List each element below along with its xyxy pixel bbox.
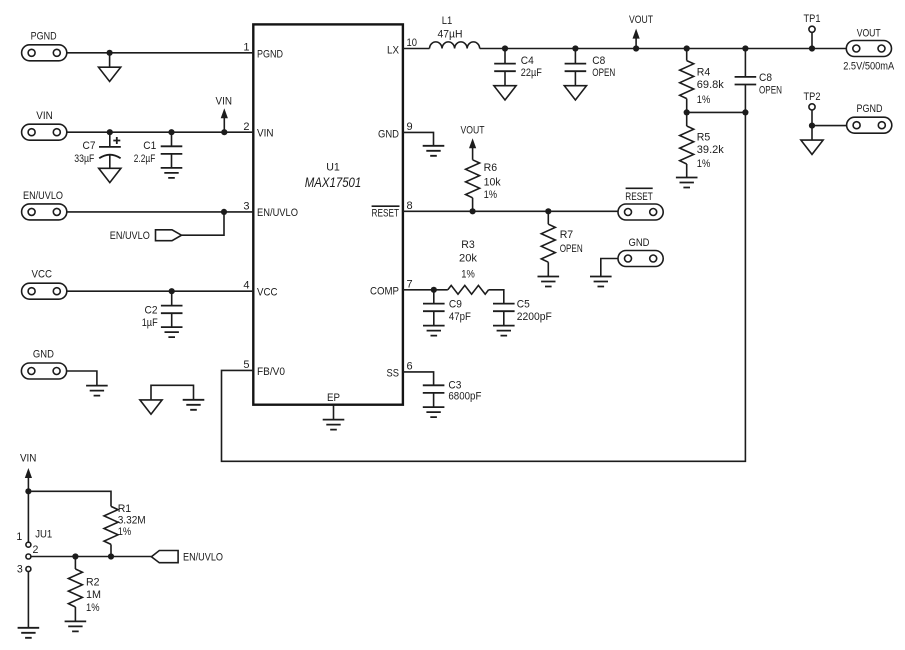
svg-text:R5: R5 [697, 131, 711, 143]
wire VIN junction to R1 [28, 491, 111, 506]
wire VIN connector to pin 2 [67, 131, 254, 133]
connector J GND (right) [618, 237, 663, 267]
ground bridge triangle-earth (floating) [151, 385, 194, 400]
node junction VIN/R1 [25, 488, 31, 494]
svg-text:6800pF: 6800pF [448, 391, 481, 403]
wire R3 to C5 [489, 290, 504, 304]
wire pin 9 GND to ground [403, 132, 434, 145]
svg-text:L1: L1 [442, 15, 453, 27]
node junction C2 [169, 288, 175, 294]
test point TP1 [804, 13, 821, 48]
wire JU1 pin2 row to EN/UVLO tag [31, 556, 151, 558]
svg-text:GND: GND [629, 237, 650, 249]
wire VCC connector to pin 4 [67, 290, 254, 292]
svg-text:33µF: 33µF [74, 153, 94, 165]
capacitor C4 22uF [494, 49, 542, 86]
ground earth (R5) [676, 178, 698, 188]
ground earth (C5) [493, 326, 515, 336]
svg-text:8: 8 [407, 200, 413, 212]
jumper JU1 pin 2 [26, 544, 39, 559]
node junction C8 bottom [742, 109, 748, 115]
wire PGND connector to pin 1 [67, 52, 254, 54]
pin 5 label FB/V0 [243, 359, 285, 378]
svg-text:EP: EP [327, 392, 340, 404]
svg-text:5: 5 [243, 359, 249, 371]
wire feedback loop pin5 FB/V0 [222, 112, 746, 461]
wire pin 10 LX to inductor [403, 48, 430, 50]
wire GND connector (right) to ground [601, 259, 618, 277]
jumper JU1 pin 1 [16, 531, 31, 547]
pin EP label [327, 392, 340, 404]
capacitor C2 1uF [142, 291, 183, 329]
ground earth (C9) [423, 326, 445, 336]
svg-text:EN/UVLO: EN/UVLO [183, 552, 223, 564]
op-amp U1 MAX17501 IC body [253, 24, 403, 404]
svg-text:VIN: VIN [216, 95, 233, 107]
svg-text:R3: R3 [461, 239, 475, 251]
wire stub down to ground triangle [109, 53, 111, 67]
node junction R7 top [545, 208, 551, 214]
node junction EN/UVLO tag [221, 209, 227, 215]
connector J VCC (left) [22, 268, 67, 299]
wire GND connector to ground [67, 371, 97, 386]
svg-text:RESET: RESET [625, 191, 653, 203]
capacitor C3 6800pF [423, 379, 482, 407]
pin 9 label GND [378, 121, 413, 140]
node junction C8 (first) [572, 45, 578, 51]
svg-text:COMP: COMP [370, 286, 399, 298]
ground earth (C2) [161, 327, 183, 337]
ground earth (GND connector) [86, 386, 108, 396]
connector J PGND (top-left) [22, 31, 67, 61]
svg-text:9: 9 [407, 121, 413, 133]
svg-text:FB/V0: FB/V0 [257, 366, 285, 378]
net arrow VIN (up) [216, 95, 233, 132]
node junction R2 top [72, 553, 78, 559]
svg-text:7: 7 [407, 278, 413, 290]
node junction R6 bottom [470, 208, 476, 214]
node junction C8 top rail [742, 45, 748, 51]
svg-text:VOUT: VOUT [629, 14, 653, 26]
svg-text:U1: U1 [326, 162, 340, 174]
connector J VIN (left) [22, 110, 67, 140]
svg-text:1%: 1% [86, 602, 100, 614]
connector J PGND (right) [847, 103, 892, 133]
svg-text:1%: 1% [484, 189, 498, 201]
svg-text:47pF: 47pF [449, 311, 471, 323]
svg-text:GND: GND [33, 349, 54, 361]
ground earth (GND right) [590, 277, 612, 287]
pin 7 label COMP [370, 278, 413, 297]
node junction PGND/ground [107, 50, 113, 56]
net arrow VOUT (middle, above R6) [461, 125, 485, 160]
svg-text:R4: R4 [697, 67, 711, 79]
svg-text:69.8k: 69.8k [697, 79, 725, 91]
wire VOUT rail [480, 48, 847, 50]
svg-text:OPEN: OPEN [592, 67, 615, 79]
svg-text:PGND: PGND [857, 103, 883, 115]
svg-text:C8: C8 [592, 55, 605, 67]
capacitor C9 47pF [423, 290, 471, 326]
svg-text:22µF: 22µF [521, 67, 542, 79]
svg-text:OPEN: OPEN [560, 243, 583, 255]
node junction TP1 [809, 45, 815, 51]
svg-text:20k: 20k [459, 252, 478, 264]
inductor L1 47uH [430, 15, 480, 48]
svg-text:SS: SS [387, 368, 400, 380]
capacitor C8 OPEN (first) [565, 49, 616, 86]
pin 4 label VCC [243, 280, 277, 299]
ground earth (pin 9) [423, 146, 445, 156]
svg-text:47µH: 47µH [438, 29, 463, 41]
connector J VOUT (right) [843, 28, 895, 73]
node junction C4 [502, 45, 508, 51]
resistor R2 1M 1% [68, 557, 101, 622]
svg-text:VIN: VIN [257, 128, 274, 140]
svg-text:OPEN: OPEN [759, 85, 782, 97]
wire pin 6 SS [403, 372, 434, 385]
svg-text:1µF: 1µF [142, 317, 158, 329]
svg-text:1: 1 [243, 42, 249, 54]
svg-text:1%: 1% [461, 269, 475, 281]
capacitor C8 OPEN (second, across R4) [735, 49, 782, 113]
svg-text:LX: LX [387, 45, 399, 57]
wire R4/R5 junction to C8 branch [687, 111, 746, 113]
pin 10 label LX [387, 37, 417, 56]
node junction VOUT arrow [633, 45, 639, 51]
ground earth (R7) [538, 277, 560, 287]
wire tag riser [182, 212, 225, 235]
svg-text:EN/UVLO: EN/UVLO [23, 190, 63, 202]
node junction R4 top [684, 45, 690, 51]
ground EP (earth) [323, 420, 345, 430]
svg-text:EN/UVLO: EN/UVLO [110, 230, 150, 242]
pin 6 label SS [387, 361, 413, 380]
svg-text:C8: C8 [759, 72, 772, 84]
ground triangle (TP2) [801, 140, 823, 154]
svg-text:PGND: PGND [257, 49, 283, 61]
svg-text:R6: R6 [484, 162, 498, 174]
svg-text:RESET: RESET [372, 207, 400, 219]
resistor R4 69.8k 1% [680, 49, 725, 113]
node junction R1 bottom [108, 553, 114, 559]
capacitor C7 33uF polarized [74, 132, 121, 168]
svg-text:MAX17501: MAX17501 [305, 175, 362, 190]
svg-text:10: 10 [407, 37, 418, 49]
svg-text:C3: C3 [448, 379, 461, 391]
svg-text:VCC: VCC [32, 268, 53, 280]
wire EP to ground [333, 405, 335, 420]
svg-text:1%: 1% [697, 94, 711, 106]
svg-text:PGND: PGND [31, 31, 57, 43]
node junction C1 [168, 129, 174, 135]
svg-text:TP1: TP1 [804, 13, 821, 25]
svg-text:TP2: TP2 [804, 91, 821, 103]
svg-text:10k: 10k [484, 176, 502, 188]
resistor R3 20k 1% (horizontal) [448, 239, 489, 294]
svg-text:VOUT: VOUT [461, 125, 485, 137]
svg-text:EN/UVLO: EN/UVLO [257, 207, 298, 219]
svg-text:C1: C1 [143, 140, 156, 152]
test point TP2 [804, 91, 821, 126]
wire pin 8 RESET row [403, 210, 619, 212]
svg-text:VIN: VIN [20, 452, 37, 464]
ground triangle (bridge left) [140, 400, 162, 414]
ground earth (C3) [423, 407, 445, 417]
wire EN/UVLO connector to pin 3 [67, 211, 254, 213]
resistor R6 10k 1% [466, 160, 502, 212]
svg-text:2.5V/500mA: 2.5V/500mA [843, 61, 895, 73]
resistor R7 OPEN [541, 211, 582, 276]
svg-text:2: 2 [33, 544, 39, 556]
svg-text:C5: C5 [517, 299, 530, 311]
connector J GND (left) [21, 349, 66, 380]
capacitor C5 2200pF [493, 299, 552, 326]
svg-text:2: 2 [243, 121, 249, 133]
ground triangle (PGND row) [99, 67, 121, 81]
svg-text:R2: R2 [86, 576, 100, 588]
ground triangle (C8 first) [564, 86, 586, 100]
pin 8 label RESET (overline) [372, 200, 413, 220]
wire pin 7 COMP [403, 289, 448, 291]
svg-text:1M: 1M [86, 589, 101, 601]
svg-text:3: 3 [243, 201, 249, 213]
net arrow VOUT (top) [629, 14, 653, 49]
ground triangle (C4) [494, 86, 516, 100]
svg-text:2.2µF: 2.2µF [134, 153, 156, 165]
svg-text:2200pF: 2200pF [517, 311, 553, 323]
svg-text:GND: GND [378, 128, 399, 140]
svg-text:1%: 1% [697, 158, 711, 170]
ground earth (R2) [65, 621, 87, 631]
resistor R1 3.32M 1% [104, 503, 146, 557]
node junction C9 [431, 287, 437, 293]
capacitor C1 2.2uF [134, 132, 183, 168]
connector J EN/UVLO (left) [22, 190, 67, 220]
net tag EN/UVLO (points left) [151, 551, 223, 564]
svg-text:R1: R1 [118, 503, 132, 515]
svg-text:VOUT: VOUT [857, 28, 881, 40]
ground earth (C1) [161, 168, 183, 178]
svg-text:3.32M: 3.32M [118, 514, 146, 526]
svg-text:6: 6 [407, 361, 413, 373]
node junction R4/R5 [684, 109, 690, 115]
svg-text:VCC: VCC [257, 287, 278, 299]
svg-text:C7: C7 [83, 140, 96, 152]
svg-text:4: 4 [243, 280, 249, 292]
wire TP2 ground stub [811, 126, 813, 141]
ground earth (JU1 pin3) [18, 628, 40, 638]
svg-text:1: 1 [16, 531, 22, 543]
svg-text:3: 3 [17, 563, 23, 575]
resistor R5 39.2k 1% [680, 112, 725, 177]
ground earth (bridge right) [183, 400, 205, 410]
pin 1 label PGND [243, 42, 283, 61]
wire JU1 pin3 to ground [27, 572, 29, 628]
node junction TP2 [809, 123, 815, 129]
net arrow VIN (bottom-left) [20, 452, 37, 542]
connector J RESET (with overline) [618, 188, 663, 220]
svg-text:JU1: JU1 [35, 528, 52, 540]
svg-text:39.2k: 39.2k [697, 144, 725, 156]
node junction VIN arrow [221, 129, 227, 135]
svg-text:R7: R7 [560, 229, 574, 241]
jumper JU1 pin 3 [17, 563, 31, 575]
ground triangle (C7) [99, 168, 121, 182]
pin 2 label VIN [243, 121, 273, 140]
svg-text:C9: C9 [449, 299, 462, 311]
pin 3 label EN/UVLO [243, 201, 298, 220]
node junction C7 [107, 129, 113, 135]
wire TP2 to PGND connector [812, 125, 847, 127]
svg-text:C2: C2 [145, 304, 158, 316]
svg-text:C4: C4 [521, 55, 534, 67]
svg-text:1%: 1% [118, 526, 132, 538]
svg-text:VIN: VIN [36, 110, 53, 122]
net tag EN/UVLO (points right) [110, 230, 182, 242]
